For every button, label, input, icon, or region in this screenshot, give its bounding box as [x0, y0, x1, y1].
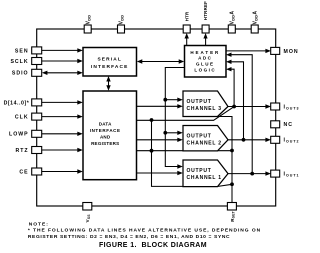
svg-text:HEATER: HEATER — [190, 50, 220, 55]
svg-text:LOGIC: LOGIC — [194, 68, 216, 73]
wire bias under channel 2 — [137, 150, 233, 152]
wire CE to data interface — [42, 169, 83, 173]
output channel 3 block — [183, 91, 228, 117]
wire IOUT2 — [228, 138, 271, 142]
wire SDIO bidirectional — [42, 71, 83, 75]
wire HTR — [185, 33, 189, 46]
node enable channel 3 — [163, 98, 167, 102]
wire heater tap 3 — [226, 67, 234, 107]
pin SEN — [15, 47, 42, 54]
svg-text:SDIO: SDIO — [12, 71, 29, 77]
wire enable branch to channel 2 — [165, 131, 183, 135]
wire data bias under channel 3 — [137, 107, 234, 120]
svg-text:D[14..0]*: D[14..0]* — [4, 100, 30, 106]
svg-text:NC: NC — [284, 122, 294, 128]
wire RTZ to data interface — [42, 148, 83, 152]
svg-text:HTRREF: HTRREF — [203, 1, 208, 20]
wire LOWP to data interface — [42, 132, 83, 136]
wire SEN to serial interface — [42, 48, 83, 52]
node enable channel 2 — [163, 131, 167, 135]
node rset collector top — [150, 118, 154, 122]
svg-text:AND: AND — [100, 134, 111, 139]
svg-text:SEN: SEN — [15, 48, 29, 54]
svg-text:CHANNEL 3: CHANNEL 3 — [187, 106, 222, 112]
svg-text:INTERFACE: INTERFACE — [90, 128, 121, 133]
data interface and registers block U2 — [83, 91, 137, 180]
wire data to channel 1 — [137, 171, 183, 175]
svg-text:CHANNEL 2: CHANNEL 2 — [187, 141, 222, 147]
svg-text:OUTPUT: OUTPUT — [187, 133, 212, 139]
svg-text:REGISTERS: REGISTERS — [91, 141, 119, 146]
svg-text:VDDA: VDDA — [230, 11, 236, 25]
serial interface block U1 — [83, 48, 137, 77]
svg-text:CHANNEL 1: CHANNEL 1 — [187, 175, 222, 181]
node bias tap left — [150, 149, 154, 153]
pin CE — [19, 168, 41, 175]
wire heater tap 2 — [226, 60, 244, 140]
svg-text:DATA: DATA — [99, 122, 112, 127]
svg-text:VDD: VDD — [119, 15, 125, 25]
wire enable branch to channel 3 — [165, 98, 183, 102]
pin NC — [271, 121, 293, 128]
wire IOUT3 — [228, 104, 271, 108]
wire serial-heater bidirectional — [137, 59, 184, 63]
svg-text:OUTPUT: OUTPUT — [187, 99, 212, 105]
svg-text:SCLK: SCLK — [10, 59, 28, 65]
svg-text:CLK: CLK — [15, 115, 29, 121]
pin SDIO — [12, 69, 42, 76]
svg-text:OUTPUT: OUTPUT — [187, 168, 212, 174]
figure caption — [99, 242, 207, 249]
pin CLK — [15, 113, 42, 120]
wire CLK to data interface — [42, 114, 83, 118]
pin RTZ — [16, 147, 42, 154]
output channel 2 block — [183, 126, 228, 151]
svg-text:MON: MON — [284, 49, 299, 55]
wire serial-data bidirectional — [106, 76, 110, 91]
svg-text:HTR: HTR — [184, 11, 189, 21]
heater adc glue logic block U3 — [185, 46, 227, 78]
svg-text:GLUE: GLUE — [196, 62, 215, 67]
wire SCLK to serial interface — [42, 59, 83, 63]
wire HTRREF — [203, 33, 207, 46]
pin HTRREF — [202, 1, 209, 33]
pin HTR — [183, 11, 190, 33]
svg-text:NOTE:: NOTE: — [29, 222, 49, 228]
wire D[14..0] to data interface — [42, 100, 83, 104]
pin IOUT3 — [271, 103, 300, 110]
pin VDD 1 — [84, 15, 91, 33]
pin SCLK — [10, 58, 41, 65]
svg-text:* THE FOLLOWING DATA LINES HAV: * THE FOLLOWING DATA LINES HAVE ALTERNAT… — [28, 228, 261, 234]
pin MON — [271, 47, 299, 55]
wire heater to channel enables vertical — [165, 68, 184, 169]
svg-text:RTZ: RTZ — [16, 148, 29, 154]
node IOUT3 tap — [232, 105, 236, 109]
svg-text:ADC: ADC — [198, 56, 212, 61]
svg-text:VDDA: VDDA — [252, 11, 258, 25]
wire data to channel 3 — [137, 104, 183, 108]
svg-text:LOWP: LOWP — [9, 132, 29, 138]
wire data to channel 2 — [137, 138, 183, 142]
wire MON — [226, 49, 271, 53]
wire heater tap 1 — [226, 53, 252, 174]
svg-text:FIGURE 1. BLOCK DIAGRAM: FIGURE 1. BLOCK DIAGRAM — [99, 242, 207, 249]
svg-text:REGISTER SETTING: D2 = EN3, D4: REGISTER SETTING: D2 = EN3, D4 = EN2, D6… — [28, 234, 230, 240]
node bias channel 2 — [230, 149, 234, 153]
note text — [28, 222, 261, 240]
pin IOUT2 — [271, 136, 300, 143]
svg-text:CE: CE — [19, 169, 28, 175]
pin VDD 2 — [118, 15, 125, 33]
wire bias under channel 1 — [152, 120, 233, 186]
pin IOUT1 — [271, 170, 300, 177]
svg-text:SERIAL: SERIAL — [97, 57, 122, 63]
output channel 1 block — [183, 160, 228, 187]
pin RSET — [227, 203, 236, 222]
pin VSS — [83, 203, 92, 223]
pin D[14..0] — [4, 99, 42, 106]
svg-text:INTERFACE: INTERFACE — [91, 64, 129, 70]
node IOUT1 tap — [250, 172, 254, 176]
wire IOUT1 — [228, 171, 271, 175]
chip outline — [37, 29, 276, 206]
svg-text:VDD: VDD — [85, 15, 91, 25]
pin LOWP — [9, 130, 42, 137]
node bias channel 1 — [230, 182, 234, 186]
pin VDDA 2 — [251, 11, 258, 33]
node IOUT2 tap — [242, 138, 246, 142]
pin VDDA 1 — [228, 11, 235, 33]
wire rset collector — [218, 117, 233, 203]
